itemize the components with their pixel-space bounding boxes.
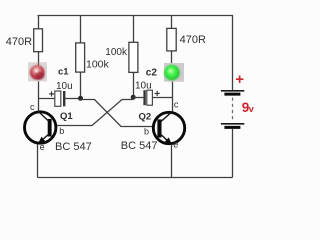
battery BT1 dashed link (232, 98, 234, 122)
wire: R2 bottom to node A (80, 72, 82, 98)
transistor Q2 circle (153, 112, 184, 143)
transistor Q2 collector line (161, 112, 172, 122)
wire: right vertical from rail to battery + (232, 16, 234, 91)
wire: green LED to Q2 collector (crosses C2 wire) (172, 82, 174, 112)
wire: battery - to ground rail (232, 129, 234, 178)
resistor R4 470R body (167, 28, 176, 51)
resistor R1 470R stem top (38, 16, 40, 29)
svg-text:Q2: Q2 (139, 111, 152, 122)
transistor Q1 emitter line with arrow (41, 134, 49, 141)
LED D1 red (photo) (28, 62, 47, 81)
resistor R3 100k body (129, 42, 138, 72)
svg-text:470R: 470R (180, 34, 206, 46)
svg-text:e: e (40, 142, 45, 152)
wire: R3 bottom to node B (133, 72, 135, 97)
battery BT1 cell 2 long plate (221, 123, 244, 125)
wire: R4 bottom to green LED (171, 51, 173, 63)
svg-text:c: c (174, 100, 179, 110)
node A junction dot (78, 96, 83, 101)
wire: Q2 emitter to ground rail (171, 145, 173, 178)
transistor Q1 collector line (38, 111, 48, 121)
resistor R4 470R stem top (171, 16, 173, 29)
svg-text:b: b (59, 126, 64, 136)
svg-text:Q1: Q1 (60, 111, 73, 122)
transistor Q2 emitter line with arrow (161, 135, 169, 142)
capacitor C1 positive plate (box) (55, 91, 61, 106)
battery BT1 cell 2 short plate (224, 126, 240, 129)
wire: top supply rail (38, 15, 234, 17)
capacitor C2 positive plate (box) (147, 90, 153, 105)
resistor R2 100k stem top (80, 16, 82, 43)
wire: cross-couple node B to Q1 base (57, 100, 134, 126)
transistor Q2 base bar (157, 119, 161, 137)
svg-text:+: + (235, 71, 244, 88)
svg-text:100k: 100k (105, 47, 128, 58)
capacitor C1 negative plate (63, 91, 65, 106)
svg-text:c1: c1 (58, 66, 69, 77)
svg-text:BC 547: BC 547 (121, 140, 158, 152)
wire: R1 bottom to red LED (38, 52, 40, 63)
svg-text:470R: 470R (6, 36, 32, 48)
battery BT1 cell 1 long plate (221, 90, 244, 92)
resistor R2 100k body (76, 43, 85, 72)
svg-text:BC 547: BC 547 (55, 141, 92, 153)
wire: C2 to Q2 collector node (152, 97, 172, 99)
resistor R1 470R body (34, 29, 43, 52)
svg-text:c: c (30, 102, 35, 112)
wire: C1 to node A (65, 98, 80, 100)
wire: Q1 emitter to ground rail (37, 144, 39, 177)
resistor R3 100k stem top (133, 16, 135, 43)
wire: bottom ground rail (38, 177, 233, 179)
transistor Q1 circle (25, 112, 56, 143)
capacitor C2 negative plate (143, 90, 145, 105)
svg-text:e: e (173, 139, 178, 149)
svg-text:100k: 100k (86, 59, 110, 71)
wire: Q1 collector node to C1 (39, 98, 55, 100)
wire: red LED to Q1 collector (crosses C1 wire) (38, 81, 40, 111)
transistor Q1 base bar (48, 119, 52, 137)
svg-text:+: + (154, 89, 160, 100)
wire: cross-couple node A to Q2 base (81, 100, 153, 127)
node B junction dot (131, 95, 136, 100)
svg-text:v: v (249, 104, 254, 114)
svg-text:c2: c2 (146, 68, 158, 79)
wire: node B to C2 (134, 97, 144, 99)
battery BT1 cell 1 short plate (224, 93, 240, 96)
LED D2 green (photo) (164, 63, 184, 82)
svg-text:b: b (144, 126, 149, 136)
